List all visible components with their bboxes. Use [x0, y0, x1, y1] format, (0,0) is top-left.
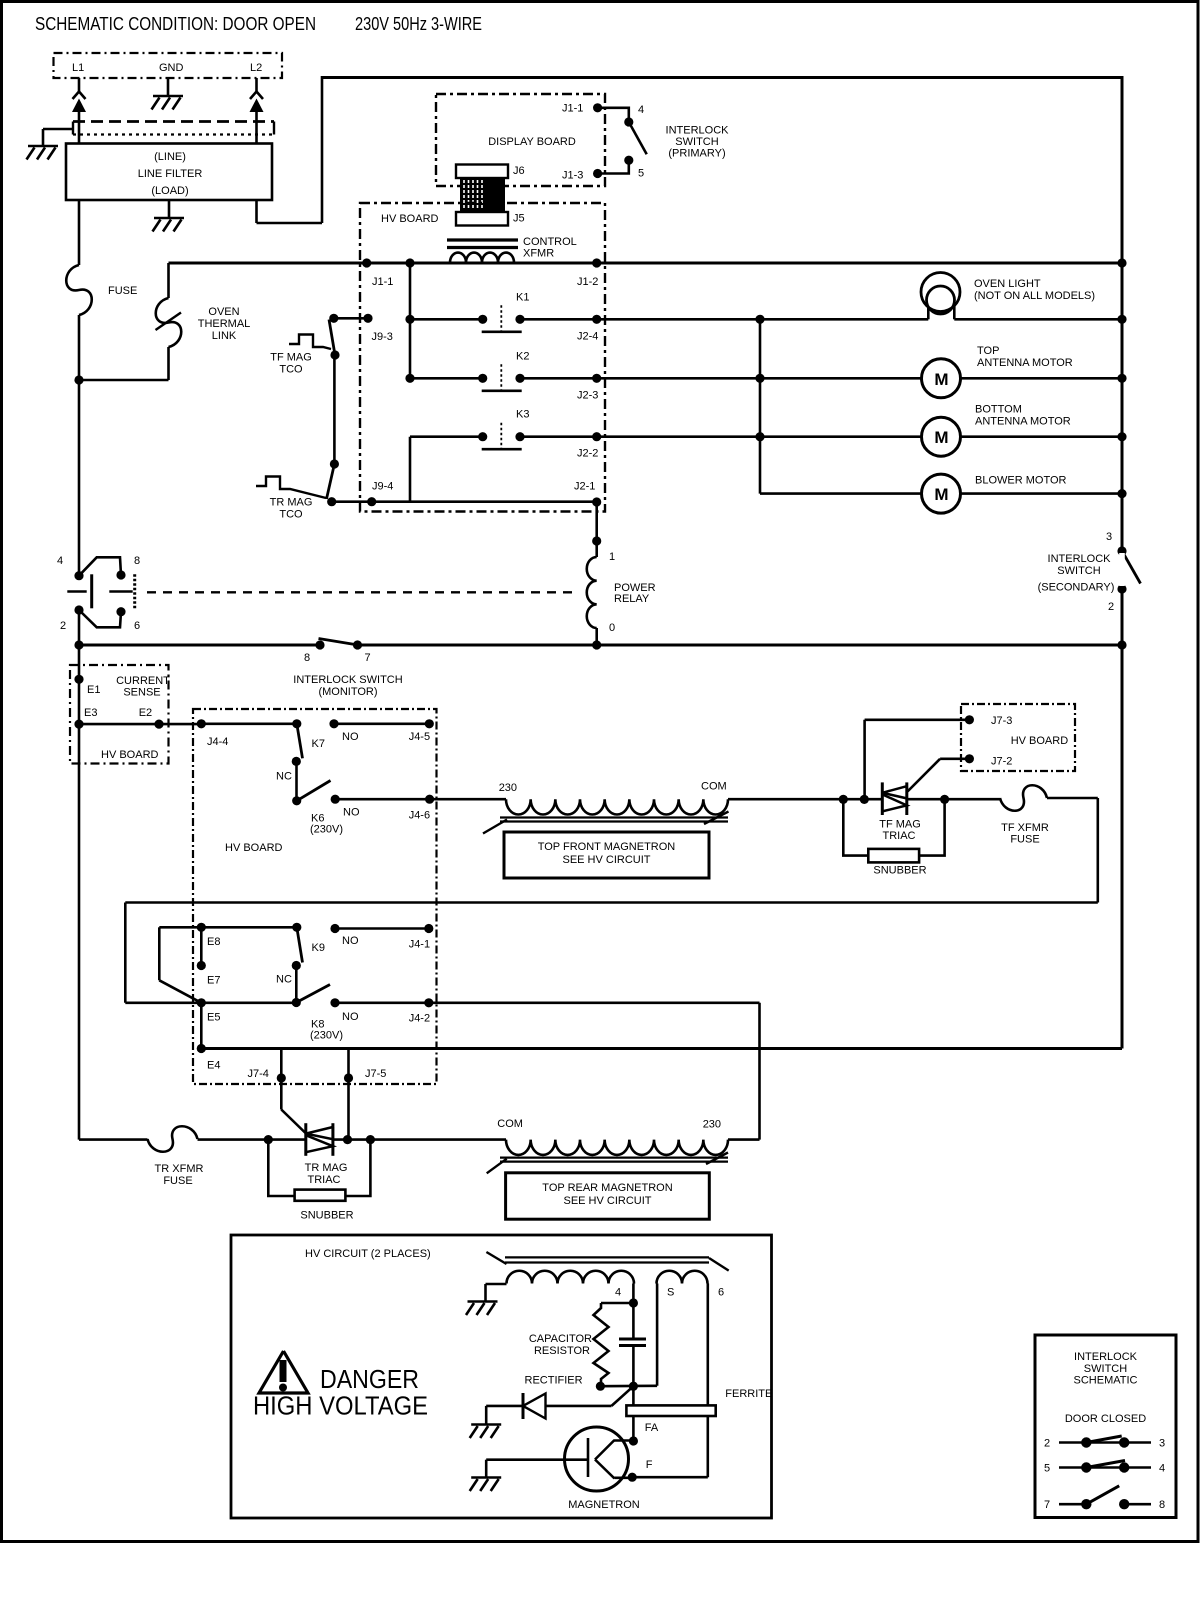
svg-text:TCO: TCO — [279, 509, 303, 521]
svg-text:2: 2 — [60, 620, 66, 632]
svg-text:J4-2: J4-2 — [409, 1013, 430, 1025]
svg-text:230: 230 — [703, 1119, 721, 1131]
svg-text:HV CIRCUIT (2 PLACES): HV CIRCUIT (2 PLACES) — [305, 1248, 431, 1260]
svg-text:J7-5: J7-5 — [365, 1068, 386, 1080]
svg-text:MAGNETRON: MAGNETRON — [568, 1499, 640, 1511]
svg-text:8: 8 — [1159, 1499, 1165, 1511]
svg-text:RELAY: RELAY — [614, 593, 650, 605]
svg-text:CAPACITOR: CAPACITOR — [529, 1333, 592, 1345]
svg-text:SCHEMATIC CONDITION: DOOR OPEN: SCHEMATIC CONDITION: DOOR OPEN — [35, 14, 316, 34]
svg-text:M: M — [934, 370, 948, 389]
svg-text:K1: K1 — [516, 291, 529, 303]
svg-text:SENSE: SENSE — [123, 687, 160, 699]
svg-text:E3: E3 — [84, 707, 97, 719]
svg-text:SCHEMATIC: SCHEMATIC — [1074, 1375, 1138, 1387]
svg-text:TOP FRONT MAGNETRON: TOP FRONT MAGNETRON — [538, 841, 676, 853]
svg-text:HV BOARD: HV BOARD — [381, 213, 439, 225]
svg-text:TF XFMR: TF XFMR — [1001, 822, 1049, 834]
svg-text:SNUBBER: SNUBBER — [300, 1210, 353, 1222]
svg-text:HV BOARD: HV BOARD — [101, 749, 159, 761]
svg-text:NO: NO — [342, 1011, 359, 1023]
svg-text:SEE HV CIRCUIT: SEE HV CIRCUIT — [563, 1195, 651, 1207]
svg-text:F: F — [646, 1459, 653, 1471]
svg-text:CURRENT: CURRENT — [116, 675, 170, 687]
svg-text:J1-1: J1-1 — [562, 103, 583, 115]
svg-text:ANTENNA MOTOR: ANTENNA MOTOR — [977, 357, 1073, 369]
svg-text:TRIAC: TRIAC — [883, 830, 916, 842]
svg-text:LINE FILTER: LINE FILTER — [138, 168, 203, 180]
svg-text:(230V): (230V) — [310, 824, 343, 836]
svg-text:BLOWER MOTOR: BLOWER MOTOR — [975, 475, 1067, 487]
svg-text:(MONITOR): (MONITOR) — [318, 686, 377, 698]
svg-text:8: 8 — [134, 555, 140, 567]
svg-text:E2: E2 — [139, 707, 152, 719]
svg-text:K2: K2 — [516, 350, 529, 362]
svg-text:K9: K9 — [312, 942, 325, 954]
svg-text:J2-2: J2-2 — [577, 448, 598, 460]
svg-text:TR MAG: TR MAG — [305, 1162, 348, 1174]
svg-text:L2: L2 — [250, 62, 262, 74]
svg-text:4: 4 — [615, 1287, 621, 1299]
svg-text:INTERLOCK: INTERLOCK — [1074, 1351, 1138, 1363]
svg-text:(LOAD): (LOAD) — [151, 185, 188, 197]
svg-text:DISPLAY BOARD: DISPLAY BOARD — [488, 136, 576, 148]
svg-text:LINK: LINK — [212, 330, 237, 342]
svg-text:COM: COM — [701, 781, 727, 793]
svg-text:1: 1 — [609, 551, 615, 563]
svg-text:J4-4: J4-4 — [207, 736, 228, 748]
svg-text:GND: GND — [159, 62, 184, 74]
svg-text:NO: NO — [343, 807, 360, 819]
svg-text:J4-5: J4-5 — [409, 731, 430, 743]
svg-text:J1-3: J1-3 — [562, 170, 583, 182]
svg-text:J9-3: J9-3 — [372, 331, 393, 343]
svg-text:FUSE: FUSE — [1010, 834, 1039, 846]
svg-text:J7-2: J7-2 — [991, 756, 1012, 768]
svg-text:DANGER: DANGER — [320, 1366, 419, 1394]
svg-text:OVEN: OVEN — [208, 306, 239, 318]
svg-text:5: 5 — [638, 168, 644, 180]
svg-text:FA: FA — [645, 1422, 659, 1434]
svg-text:SNUBBER: SNUBBER — [873, 865, 926, 877]
svg-text:DOOR CLOSED: DOOR CLOSED — [1065, 1413, 1146, 1425]
svg-text:7: 7 — [365, 652, 371, 664]
svg-text:COM: COM — [497, 1118, 523, 1130]
svg-text:INTERLOCK: INTERLOCK — [666, 125, 730, 137]
svg-text:J4-1: J4-1 — [409, 939, 430, 951]
svg-text:8: 8 — [304, 652, 310, 664]
svg-text:J2-4: J2-4 — [577, 330, 598, 342]
svg-text:J9-4: J9-4 — [372, 481, 393, 493]
svg-text:J2-1: J2-1 — [574, 481, 595, 493]
svg-text:TRIAC: TRIAC — [308, 1174, 341, 1186]
svg-text:SEE HV CIRCUIT: SEE HV CIRCUIT — [562, 854, 650, 866]
svg-text:(LINE): (LINE) — [154, 151, 186, 163]
svg-text:M: M — [934, 485, 948, 504]
svg-text:SWITCH: SWITCH — [1057, 565, 1100, 577]
svg-text:RECTIFIER: RECTIFIER — [525, 1375, 583, 1387]
svg-text:6: 6 — [718, 1287, 724, 1299]
svg-text:K3: K3 — [516, 409, 529, 421]
svg-text:TF MAG: TF MAG — [879, 819, 921, 831]
svg-text:TR MAG: TR MAG — [270, 497, 313, 509]
svg-text:230: 230 — [499, 782, 517, 794]
svg-text:2: 2 — [1108, 601, 1114, 613]
svg-text:E4: E4 — [207, 1060, 220, 1072]
svg-text:3: 3 — [1106, 531, 1112, 543]
svg-text:J7-4: J7-4 — [248, 1068, 269, 1080]
svg-text:(230V): (230V) — [310, 1030, 343, 1042]
svg-text:J4-6: J4-6 — [409, 810, 430, 822]
svg-text:S: S — [667, 1287, 674, 1299]
svg-text:5: 5 — [1044, 1463, 1050, 1475]
svg-text:J5: J5 — [513, 213, 525, 225]
svg-text:J1-1: J1-1 — [372, 276, 393, 288]
svg-text:TOP: TOP — [977, 345, 999, 357]
svg-text:E1: E1 — [87, 684, 100, 696]
svg-text:SWITCH: SWITCH — [675, 136, 718, 148]
svg-text:BOTTOM: BOTTOM — [975, 404, 1022, 416]
svg-text:(PRIMARY): (PRIMARY) — [668, 148, 725, 160]
svg-text:0: 0 — [609, 622, 615, 634]
svg-text:OVEN LIGHT: OVEN LIGHT — [974, 278, 1041, 290]
svg-text:(SECONDARY): (SECONDARY) — [1038, 582, 1115, 594]
svg-text:E8: E8 — [207, 936, 220, 948]
svg-text:ANTENNA MOTOR: ANTENNA MOTOR — [975, 416, 1071, 428]
svg-text:J6: J6 — [513, 165, 525, 177]
svg-text:NO: NO — [342, 731, 359, 743]
svg-text:6: 6 — [134, 620, 140, 632]
svg-text:2: 2 — [1044, 1438, 1050, 1450]
svg-text:FERRITE: FERRITE — [725, 1388, 772, 1400]
svg-text:(NOT ON ALL MODELS): (NOT ON ALL MODELS) — [974, 290, 1095, 302]
svg-text:XFMR: XFMR — [523, 248, 554, 260]
svg-text:FUSE: FUSE — [108, 285, 137, 297]
svg-text:4: 4 — [638, 104, 644, 116]
svg-text:4: 4 — [57, 555, 63, 567]
svg-text:TF MAG: TF MAG — [270, 352, 312, 364]
svg-text:FUSE: FUSE — [163, 1175, 192, 1187]
svg-text:RESISTOR: RESISTOR — [534, 1345, 590, 1357]
svg-text:NC: NC — [276, 771, 292, 783]
svg-text:L1: L1 — [72, 62, 84, 74]
svg-text:INTERLOCK: INTERLOCK — [1048, 553, 1112, 565]
svg-text:HV BOARD: HV BOARD — [225, 842, 283, 854]
svg-text:7: 7 — [1044, 1499, 1050, 1511]
svg-text:3: 3 — [1159, 1438, 1165, 1450]
svg-text:M: M — [934, 428, 948, 447]
svg-text:230V 50Hz 3-WIRE: 230V 50Hz 3-WIRE — [355, 14, 482, 34]
svg-text:J7-3: J7-3 — [991, 715, 1012, 727]
svg-text:INTERLOCK SWITCH: INTERLOCK SWITCH — [293, 674, 402, 686]
svg-text:E7: E7 — [207, 975, 220, 987]
svg-text:NO: NO — [342, 935, 359, 947]
svg-text:J2-3: J2-3 — [577, 389, 598, 401]
svg-text:TOP REAR MAGNETRON: TOP REAR MAGNETRON — [542, 1182, 672, 1194]
svg-text:TCO: TCO — [279, 364, 303, 376]
svg-text:SWITCH: SWITCH — [1084, 1363, 1127, 1375]
svg-text:TR XFMR: TR XFMR — [155, 1163, 204, 1175]
svg-text:HIGH VOLTAGE: HIGH VOLTAGE — [253, 1393, 428, 1421]
svg-text:NC: NC — [276, 974, 292, 986]
svg-text:4: 4 — [1159, 1463, 1165, 1475]
svg-text:J1-2: J1-2 — [577, 276, 598, 288]
svg-text:THERMAL: THERMAL — [198, 318, 251, 330]
svg-text:HV BOARD: HV BOARD — [1011, 735, 1069, 747]
svg-text:E5: E5 — [207, 1012, 220, 1024]
svg-text:CONTROL: CONTROL — [523, 236, 577, 248]
svg-text:K7: K7 — [312, 738, 325, 750]
